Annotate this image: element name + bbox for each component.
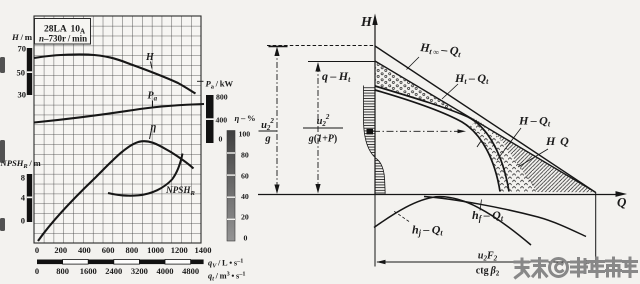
label H - Q with leader: [518, 134, 569, 167]
svg-text:1400: 1400: [195, 245, 212, 255]
tick before Pa/kW label: [197, 80, 204, 82]
svg-text:50: 50: [17, 68, 26, 78]
svg-text:H / m: H / m: [11, 32, 33, 42]
svg-text:0: 0: [219, 135, 223, 144]
svg-text:20: 20: [241, 213, 249, 222]
svg-text:q – Ht: q – Ht: [322, 69, 351, 84]
svg-text:Ht ∞ – Qt: Ht ∞ – Qt: [419, 40, 463, 59]
title box 28LA 10A: [35, 19, 91, 45]
svg-text:0: 0: [244, 234, 248, 243]
svg-text:1600: 1600: [80, 266, 97, 276]
eta scale bar: [227, 131, 235, 242]
svg-text:70: 70: [18, 44, 27, 54]
H axis: [372, 14, 377, 196]
svg-text:n–730r / min: n–730r / min: [39, 34, 87, 44]
NPSH_R curve: [108, 154, 183, 196]
curve H - Qt: [375, 86, 509, 192]
svg-text:4800: 4800: [182, 266, 199, 276]
eta curve: [38, 141, 194, 241]
svg-text:u2F2: u2F2: [478, 251, 498, 263]
svg-text:80: 80: [241, 151, 249, 160]
fraction label u2^2/g(1+P): [303, 113, 343, 145]
Q axis: [258, 191, 627, 197]
svg-text:H: H: [145, 52, 155, 63]
x axis numbers m3 scale: [35, 266, 199, 276]
NPSH scale bar: [27, 174, 32, 222]
H axis scale bar: [27, 48, 32, 95]
label hj - Qt with dashed leader: [393, 211, 443, 238]
solid reference line at u2^2/g(1+P) level: [308, 61, 375, 63]
black square node on q band: [367, 129, 374, 135]
grid of left chart: [34, 16, 201, 243]
H curve label: [145, 52, 155, 69]
pebble slip region between Ht-Qt and H-Qt: [375, 62, 468, 117]
svg-text:qV / L • s–1: qV / L • s–1: [208, 258, 243, 270]
svg-text:4: 4: [21, 193, 26, 203]
svg-text:0: 0: [21, 216, 25, 226]
x axis numbers L/s: [35, 245, 212, 255]
svg-text:600: 600: [102, 245, 115, 255]
svg-text:100: 100: [239, 130, 251, 139]
svg-text:1200: 1200: [171, 245, 188, 255]
svg-text:800: 800: [126, 245, 139, 255]
Pa curve label: [148, 91, 158, 108]
fraction label u2^2/g: [259, 117, 278, 145]
svg-text:Pa / kW: Pa / kW: [206, 79, 234, 91]
svg-text:H Q: H Q: [545, 134, 569, 148]
svg-text:2400: 2400: [105, 266, 122, 276]
curl volumetric loss region: [469, 121, 539, 192]
svg-text:800: 800: [216, 93, 228, 102]
fraction label u2F2 / ctg beta2: [476, 251, 500, 278]
svg-text:Q: Q: [617, 195, 627, 210]
svg-text:η – %: η – %: [235, 113, 256, 123]
svg-text:hf – Qt: hf – Qt: [472, 208, 504, 223]
label H - Qt with leader: [497, 114, 551, 161]
svg-text:200: 200: [54, 245, 67, 255]
hatched hydraulic loss region: [468, 116, 596, 192]
svg-text:H: H: [360, 15, 373, 30]
Pa scale bar: [206, 95, 214, 143]
svg-text:1000: 1000: [147, 245, 164, 255]
curve hj - Qt: [374, 197, 531, 245]
label Ht - Qt with leader: [442, 71, 489, 99]
ruler scale bar: [37, 260, 204, 265]
svg-text:H – Qt: H – Qt: [518, 114, 551, 129]
Pa curve: [34, 104, 204, 123]
svg-text:400: 400: [216, 116, 228, 125]
bottom dimension line u2F2/ctg b2: [376, 260, 595, 265]
scan smudge top left edge: [0, 57, 5, 73]
svg-text:8: 8: [21, 173, 25, 183]
leakage q profile band upper lobe: [364, 86, 375, 158]
svg-text:40: 40: [241, 192, 249, 201]
svg-text:qt / m3 • s–1: qt / m3 • s–1: [208, 271, 245, 283]
small leakage gap arrow mark: [477, 142, 486, 147]
curve H - Q: [375, 90, 500, 192]
line Ht_inf - Qt: [375, 46, 596, 192]
svg-text:400: 400: [78, 245, 91, 255]
svg-text:3200: 3200: [131, 266, 148, 276]
svg-text:60: 60: [241, 172, 249, 181]
curve hf - Qt: [424, 197, 586, 237]
line Ht - Qt: [375, 61, 596, 192]
eta curve label: [150, 122, 157, 139]
H axis lower extension line: [374, 195, 376, 267]
svg-text:u22: u22: [317, 113, 330, 128]
scan smudge lower left edge: [0, 218, 5, 231]
svg-text:hj – Qt: hj – Qt: [412, 223, 443, 238]
svg-text:4000: 4000: [157, 266, 174, 276]
right extension line below convergence point: [595, 192, 597, 267]
H curve: [34, 54, 196, 93]
svg-text:u22: u22: [261, 117, 274, 132]
dimension line u2^2/g: [274, 47, 279, 195]
svg-text:g(1+P): g(1+P): [308, 134, 338, 145]
svg-text:0: 0: [35, 266, 39, 276]
dashed reference line at u2^2/g level: [267, 45, 375, 47]
dash-dot arrow to design point: [373, 129, 466, 133]
scan smudge middle left edge: [0, 140, 5, 163]
svg-text:ctg β2: ctg β2: [476, 266, 500, 278]
dimension line u2^2/g(1+P): [315, 62, 320, 194]
leakage q profile band lower lobe: [375, 158, 385, 194]
svg-text:30: 30: [18, 90, 27, 100]
svg-text:g: g: [264, 134, 270, 145]
svg-text:800: 800: [56, 266, 69, 276]
watermark toutiao blocks: [515, 258, 637, 278]
label hf - Qt with leader: [472, 200, 504, 224]
svg-text:Ht – Qt: Ht – Qt: [454, 71, 489, 86]
svg-text:0: 0: [35, 245, 39, 255]
